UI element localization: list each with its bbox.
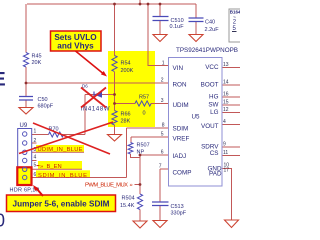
wire rail to R54 — [114, 4, 116, 56]
svg-text:B164: B164 — [230, 10, 240, 15]
red X over header UDIM path — [19, 122, 113, 154]
svg-text:6: 6 — [161, 150, 164, 156]
svg-text:4: 4 — [223, 119, 226, 125]
callout Sets UVLO and Vhys — [51, 31, 108, 77]
svg-text:U5: U5 — [192, 114, 201, 121]
wire diode D6 horizontal — [85, 94, 115, 96]
svg-text:5: 5 — [161, 132, 164, 138]
wire VCC pin 13 — [222, 67, 240, 69]
svg-text:5: 5 — [34, 163, 37, 169]
svg-text:UDIM_IN_BLUE: UDIM_IN_BLUE — [38, 147, 83, 153]
component B1 box top right — [229, 9, 242, 42]
svg-text:1: 1 — [162, 61, 165, 67]
header pin 6 circle — [23, 175, 27, 179]
wire R45 to RON node — [25, 67, 27, 96]
wire VREF to R507 — [130, 137, 132, 143]
svg-text:VCC: VCC — [205, 64, 219, 71]
svg-text:11: 11 — [223, 150, 228, 156]
svg-text:17: 17 — [224, 168, 230, 174]
node D6-UVLO divider — [113, 93, 116, 96]
svg-text:R507: R507 — [137, 143, 150, 149]
wire COMP pin 7 — [160, 168, 169, 170]
wire SDRV pin 9 — [222, 146, 240, 148]
wire SDIM horizontal to header pin 6 — [32, 177, 127, 179]
svg-text:16: 16 — [223, 92, 229, 98]
svg-text:E: E — [0, 70, 6, 91]
header pin 2 circle — [23, 141, 27, 145]
wire CS pin 11 — [222, 155, 240, 157]
connector U9 header box — [18, 129, 32, 186]
svg-text:C40: C40 — [205, 20, 215, 26]
svg-text:»: » — [130, 183, 133, 189]
net label bar SDIM_IN_BLUE highlight — [36, 170, 90, 178]
svg-text:2: 2 — [34, 138, 37, 144]
svg-text:SDIM_IN_BLUE: SDIM_IN_BLUE — [38, 173, 87, 179]
wire IADJ down to R504 — [139, 155, 141, 194]
svg-text:0.1uF: 0.1uF — [170, 24, 185, 30]
resistor R45 — [23, 53, 28, 67]
svg-text:R504: R504 — [122, 196, 135, 202]
node UDIM divider tap — [113, 102, 116, 105]
resistor R70 — [49, 132, 64, 137]
svg-text:3: 3 — [161, 98, 164, 104]
svg-text:CS: CS — [210, 150, 219, 157]
svg-text:B_EN: B_EN — [47, 164, 62, 170]
diode D6 — [94, 91, 102, 98]
wire COMP down to C513 — [159, 169, 161, 202]
ground below C50 — [19, 108, 33, 115]
svg-text:R66: R66 — [121, 112, 131, 118]
svg-text:R57: R57 — [139, 95, 149, 101]
red highlight box around pins 5-6 — [17, 167, 31, 185]
svg-text:330pF: 330pF — [171, 211, 187, 217]
wire R57 to pin 3 — [151, 103, 169, 105]
ground symbols — [19, 35, 239, 229]
svg-text:COMP: COMP — [173, 170, 192, 177]
capacitor C513 — [152, 202, 169, 206]
svg-text:15.4K: 15.4K — [120, 203, 135, 209]
wire header pin 2 stub — [32, 142, 37, 144]
svg-text:BOOT: BOOT — [201, 82, 219, 89]
wire SW pin 15 — [222, 104, 240, 106]
svg-text:LG: LG — [210, 109, 219, 116]
svg-text:1: 1 — [34, 129, 37, 135]
svg-text:NP: NP — [137, 150, 145, 156]
node rail-R54 — [113, 3, 116, 6]
header pin 3 circle — [23, 150, 27, 154]
wire header pin 1 to R70 — [32, 134, 49, 136]
svg-text:8: 8 — [162, 123, 165, 129]
arrow to pins 5-6 — [37, 189, 44, 197]
node rail stub — [139, 3, 142, 6]
wire stub up at x140 — [139, 0, 141, 4]
wire SDIM pin 8 — [127, 127, 169, 129]
wire header pin 3 stub — [32, 151, 84, 153]
node PWM_BLUE_MUX-R504 — [139, 183, 142, 186]
svg-text:R45: R45 — [32, 54, 42, 60]
wire header pin 5 stub — [32, 168, 82, 170]
svg-text:UDIM: UDIM — [173, 102, 189, 109]
svg-text:680pF: 680pF — [38, 104, 54, 110]
wire C40 to ground — [195, 22, 197, 35]
svg-text:Jumper 5-6, enable SDIM: Jumper 5-6, enable SDIM — [13, 200, 110, 209]
resistor R504 — [137, 194, 142, 210]
wire VREF pin 5 — [131, 136, 169, 138]
ground below R504 — [133, 221, 147, 228]
capacitor C510 — [153, 17, 169, 21]
svg-text:13: 13 — [223, 62, 229, 68]
op IC U5 TPS92641 box — [169, 58, 223, 187]
net label bar B_EN highlight — [38, 161, 82, 169]
red X over diode D6 — [81, 88, 106, 108]
ground below GND PAD — [225, 220, 239, 228]
svg-text:and Vhys: and Vhys — [57, 42, 94, 51]
svg-text:»: » — [40, 164, 43, 170]
capacitor C40 — [189, 18, 204, 22]
resistor R54 — [112, 56, 117, 72]
svg-text:0: 0 — [143, 111, 146, 117]
resistor R57 — [135, 101, 151, 106]
wire BOOT pin 14 — [222, 84, 240, 86]
wire R507 bottom jog — [131, 154, 141, 158]
wire rail corner to C40 — [195, 4, 197, 18]
ground below C510 — [153, 35, 167, 42]
svg-text:C513: C513 — [171, 204, 184, 210]
wire SDIM vertical — [126, 128, 128, 178]
wire R70 to D6 vertical — [64, 134, 86, 136]
wire C510 to ground — [159, 21, 161, 35]
svg-text:VREF: VREF — [173, 136, 190, 143]
svg-text:U9: U9 — [20, 123, 28, 129]
svg-text:PWM_BLUE_MUX: PWM_BLUE_MUX — [85, 183, 128, 189]
node rail-C510 — [159, 3, 162, 6]
svg-text:SDIM: SDIM — [173, 126, 189, 133]
ground below R66 — [108, 135, 122, 142]
resistor R507 — [128, 143, 133, 154]
svg-text:D6: D6 — [82, 84, 88, 89]
wire C50 to ground — [25, 100, 27, 108]
wire VIN drop to pin 1 — [148, 4, 169, 66]
svg-text:PAD: PAD — [209, 171, 222, 178]
wire IADJ pin 6 — [140, 154, 169, 156]
node rail-VIN drop — [147, 3, 150, 6]
svg-text:SW: SW — [208, 102, 218, 109]
svg-text:C50: C50 — [38, 97, 48, 103]
svg-text:R54: R54 — [121, 61, 131, 67]
ground below C513 — [153, 221, 167, 228]
node IADJ-R507 — [139, 154, 142, 157]
UVLO divider yellow highlight box — [108, 51, 155, 127]
svg-text:2.2uF: 2.2uF — [205, 27, 220, 33]
svg-text:6: 6 — [34, 172, 37, 178]
net label bar UDIM_IN_BLUE highlight — [36, 145, 84, 152]
net label B_EN — [37, 165, 40, 167]
wire VOUT pin 4 — [222, 124, 240, 126]
svg-text:IADJ: IADJ — [173, 153, 187, 160]
header pin 1 circle — [23, 132, 27, 136]
resistor R66 — [112, 111, 117, 125]
svg-text:7: 7 — [159, 164, 162, 170]
svg-text:15: 15 — [223, 100, 229, 106]
wire rail to C510 — [159, 4, 161, 17]
svg-text:28K: 28K — [121, 119, 131, 125]
capacitor C50 — [19, 97, 33, 101]
wire GND PAD to ground — [222, 169, 232, 221]
wire left vertical from rail to R45 — [25, 4, 27, 53]
wire D6 down to R70 — [84, 95, 86, 135]
svg-text:20K: 20K — [32, 60, 42, 66]
svg-text:2: 2 — [161, 78, 164, 84]
svg-text:VOUT: VOUT — [201, 123, 219, 130]
svg-text:9: 9 — [223, 142, 226, 148]
wire LG pin 12 — [222, 112, 240, 114]
svg-text:VIN: VIN — [173, 65, 184, 72]
callout Jumper 5-6 enable SDIM — [7, 185, 116, 212]
svg-text:14: 14 — [223, 80, 229, 86]
svg-text:TPS92641PWPNOPB: TPS92641PWPNOPB — [176, 47, 238, 54]
wire header pin 4 stub — [32, 160, 37, 162]
svg-text:12: 12 — [223, 107, 229, 113]
wire R504 to ground — [139, 210, 141, 222]
wire HG pin 16 — [222, 96, 240, 98]
svg-text:0: 0 — [0, 211, 5, 231]
arrow to divider — [76, 51, 103, 73]
wire RON horizontal to pin 2 — [26, 82, 169, 84]
wire R54 to R66 — [114, 72, 116, 111]
svg-text:RON: RON — [173, 82, 187, 89]
wire VIN top rail — [27, 3, 196, 5]
svg-text:4: 4 — [34, 155, 37, 161]
header pin 5 circle — [23, 167, 27, 171]
header pin 4 circle — [23, 158, 27, 162]
node R45-C50-RON — [25, 82, 28, 85]
wire C513 to ground — [159, 206, 161, 221]
svg-text:HG: HG — [209, 94, 219, 101]
svg-text:200K: 200K — [121, 68, 134, 74]
wire PWM_BLUE_MUX entry — [135, 184, 141, 186]
wire UDIM node to R57 — [115, 103, 136, 105]
wire R66 to ground — [114, 125, 116, 135]
ground below C40 — [189, 35, 203, 42]
